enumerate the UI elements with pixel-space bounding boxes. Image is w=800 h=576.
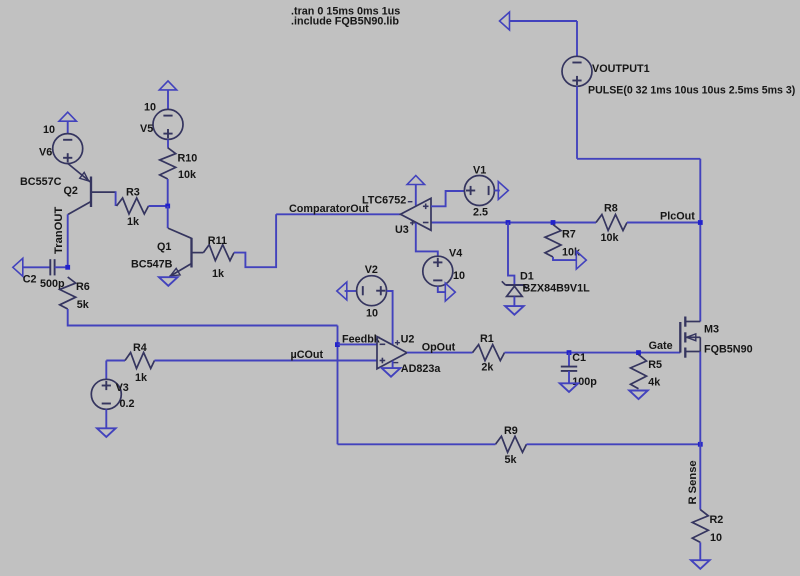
label V1 — [473, 165, 486, 177]
svg-text:2k: 2k — [481, 362, 494, 374]
wire R1 to gate row — [505, 352, 681, 354]
flag at V2 — [337, 282, 347, 300]
label C2 — [23, 274, 37, 286]
svg-text:2.5: 2.5 — [473, 207, 488, 219]
svg-text:U2: U2 — [401, 334, 415, 346]
resistor R8 — [596, 215, 627, 231]
wire M3 source to R2 — [699, 352, 701, 510]
voltage source V2 — [357, 276, 387, 306]
ground bottom right — [691, 560, 710, 569]
svg-text:R3: R3 — [126, 187, 140, 199]
wire R11 to ComparatorOut riser — [234, 214, 276, 267]
wire R4 to V3 — [105, 361, 107, 380]
label R7 — [562, 229, 576, 241]
resistor R4 — [125, 353, 155, 369]
wire V2 to U2 supply — [387, 291, 393, 345]
svg-text:V4: V4 — [449, 248, 462, 260]
node junction PlcOut — [698, 220, 703, 225]
svg-text:10: 10 — [453, 270, 465, 282]
label V6 — [39, 147, 52, 159]
svg-text:Gate: Gate — [649, 340, 673, 352]
svg-text:1k: 1k — [135, 372, 148, 384]
label U3 — [395, 224, 409, 236]
svg-text:10: 10 — [144, 102, 156, 114]
wire U2 bottom supply — [392, 361, 394, 368]
wire R10 to node — [167, 179, 169, 206]
wire Q2 base to R3 — [115, 191, 117, 206]
voltage source V4 — [423, 256, 453, 286]
svg-text:V1: V1 — [473, 165, 486, 177]
voltage source V6 — [53, 134, 83, 164]
svg-text:LTC6752: LTC6752 — [362, 195, 406, 207]
wire R9 right — [527, 443, 701, 445]
svg-text:OpOut: OpOut — [422, 342, 456, 354]
svg-text:10k: 10k — [601, 232, 620, 244]
wire R7 to flag — [553, 257, 577, 260]
value 0.2 of V3 — [120, 398, 135, 410]
wire VOUTPUT1 to right rail — [577, 86, 700, 159]
label FQB5N90 — [704, 344, 753, 356]
voltage source VOUTPUT1 — [562, 56, 592, 86]
comparator U3 LTC6752 — [401, 198, 432, 230]
svg-text:10: 10 — [366, 308, 378, 320]
svg-text:R5: R5 — [648, 359, 662, 371]
label R2 — [710, 514, 724, 526]
flag at V1 — [498, 182, 508, 200]
resistor R6 — [60, 277, 76, 309]
spice directive .tran — [291, 6, 400, 18]
resistor R2 — [692, 510, 708, 543]
flag above U3 — [407, 176, 424, 206]
flag net top-left — [500, 12, 510, 30]
value 2k of R1 — [481, 362, 494, 374]
value 10 of R2 — [710, 532, 722, 544]
svg-text:R4: R4 — [133, 342, 147, 354]
svg-text:TranOUT: TranOUT — [53, 207, 65, 254]
wire V3 to ground — [105, 409, 107, 428]
flag at R7 — [576, 251, 586, 269]
svg-text:1k: 1k — [127, 216, 140, 228]
transistor Q2 BC557C — [68, 163, 116, 214]
svg-text:µCOut: µCOut — [291, 349, 324, 361]
svg-text:V2: V2 — [365, 264, 378, 276]
wire ComparatorOut — [276, 213, 400, 215]
ground below U2 — [382, 368, 401, 377]
svg-text:4k: 4k — [648, 377, 661, 389]
node junction C1 — [567, 350, 572, 355]
wire top flag to VOUTPUT1 top — [510, 21, 578, 56]
svg-text:R7: R7 — [562, 229, 576, 241]
svg-text:10: 10 — [43, 124, 55, 136]
node junction RSense — [698, 442, 703, 447]
wire right rail upper — [699, 159, 701, 322]
value 500p of C2 — [40, 278, 65, 290]
flag at V4 — [445, 283, 455, 301]
ground below R5 — [629, 391, 648, 400]
svg-text:10: 10 — [710, 532, 722, 544]
label net uCOut — [291, 349, 324, 361]
wire flag to C2 — [23, 266, 51, 268]
resistor R5 — [631, 355, 647, 389]
label R11 — [208, 235, 227, 247]
label net OpOut — [422, 342, 456, 354]
svg-text:10k: 10k — [178, 169, 197, 181]
label 10 of V5 — [144, 102, 156, 114]
wire flag to V2 — [345, 290, 357, 292]
wire C2 to node — [55, 266, 68, 268]
svg-text:0.2: 0.2 — [120, 398, 135, 410]
svg-text:BC557C: BC557C — [20, 176, 62, 188]
svg-text:C2: C2 — [23, 274, 37, 286]
svg-text:BC547B: BC547B — [131, 259, 173, 271]
svg-text:C1: C1 — [572, 352, 586, 364]
label LTC6752 — [362, 195, 406, 207]
resistor R1 — [473, 345, 505, 361]
label net RSense — [687, 460, 699, 504]
value 4k of R5 — [648, 377, 661, 389]
value 10 of V4 — [453, 270, 465, 282]
ground at Q1 emitter — [159, 277, 178, 286]
wire R9 left — [338, 443, 496, 445]
label net ComparatorOut — [289, 203, 369, 215]
node junction Feedbk — [335, 342, 340, 347]
svg-text:R11: R11 — [208, 235, 227, 247]
wire comparator minus row — [431, 222, 596, 224]
label 10 of V6 — [43, 124, 55, 136]
capacitor C1 — [561, 353, 577, 384]
spice directive .include — [291, 16, 399, 28]
label Q2 — [64, 185, 78, 197]
value 10k of R7 — [562, 247, 581, 259]
wire corner to R4 — [106, 360, 125, 362]
svg-text:BZX84B9V1L: BZX84B9V1L — [523, 283, 591, 295]
node junction R5 — [636, 350, 641, 355]
svg-text:V3: V3 — [116, 382, 129, 394]
svg-text:5k: 5k — [505, 454, 518, 466]
value 10 of V2 — [366, 308, 378, 320]
label D1 — [520, 271, 534, 283]
svg-text:V6: V6 — [39, 147, 52, 159]
svg-text:R1: R1 — [480, 333, 494, 345]
svg-text:Q1: Q1 — [157, 241, 171, 253]
svg-text:Feedbk: Feedbk — [342, 334, 381, 346]
label net PlcOut — [660, 211, 695, 223]
value 10k of R10 — [178, 169, 197, 181]
svg-text:ComparatorOut: ComparatorOut — [289, 203, 369, 215]
label BC557C — [20, 176, 62, 188]
node junction R3/R10/Q1 — [165, 204, 170, 209]
voltage source V1 — [464, 176, 494, 206]
wire Feedbk riser — [337, 326, 339, 445]
label R8 — [604, 203, 618, 215]
svg-text:R Sense: R Sense — [687, 460, 699, 504]
svg-text:R9: R9 — [504, 425, 518, 437]
value 1k of R4 — [135, 372, 148, 384]
transistor Q1 BC547B — [168, 228, 204, 276]
svg-text:R2: R2 — [710, 514, 724, 526]
svg-text:Q2: Q2 — [64, 185, 78, 197]
label VOUTPUT1 — [592, 63, 650, 75]
node junction D1 branch — [506, 220, 511, 225]
svg-text:R8: R8 — [604, 203, 618, 215]
value 1k of R11 — [212, 268, 225, 280]
svg-text:VOUTPUT1: VOUTPUT1 — [592, 63, 650, 75]
value 2.5 of V1 — [473, 207, 488, 219]
label R6 — [76, 281, 90, 293]
svg-text:M3: M3 — [704, 324, 719, 336]
resistor R3 — [117, 198, 149, 214]
svg-text:1k: 1k — [212, 268, 225, 280]
label C1 — [572, 352, 586, 364]
wire V5 to R10 — [167, 139, 169, 147]
label R10 — [178, 153, 198, 165]
node junction R7 branch — [551, 220, 556, 225]
label BC547B — [131, 259, 173, 271]
wire Q2 collector TranOUT — [67, 214, 69, 267]
flag above V5 — [159, 81, 176, 110]
wire U3 bottom supply to V4 — [416, 223, 438, 256]
value PULSE(0 32 1ms 10us 10us 2.5ms 5ms 3) — [588, 85, 795, 97]
svg-text:D1: D1 — [520, 271, 534, 283]
ground below D1 — [505, 306, 524, 315]
resistor R11 — [203, 245, 234, 261]
label R4 — [133, 342, 147, 354]
node junction TranOUT/C2/R6 — [65, 265, 70, 270]
wire R2 to ground — [699, 542, 701, 560]
label Q1 — [157, 241, 171, 253]
label net Feedbk — [342, 334, 381, 346]
label net Gate — [649, 340, 673, 352]
value 5k of R9 — [505, 454, 518, 466]
label U2 — [401, 334, 415, 346]
wire R6 down and across — [68, 309, 338, 326]
wire OpOut — [407, 352, 473, 354]
label R3 — [126, 187, 140, 199]
voltage source V3 — [91, 379, 121, 409]
resistor R9 — [496, 436, 527, 452]
capacitor C2 — [50, 259, 54, 275]
svg-text:AD823a: AD823a — [401, 363, 442, 375]
wire R3 to node — [149, 205, 168, 207]
wire node to Q1 collector — [167, 206, 169, 228]
value 10k of R8 — [601, 232, 620, 244]
value 5k of R6 — [77, 299, 90, 311]
svg-text:R6: R6 — [76, 281, 90, 293]
label V3 — [116, 382, 129, 394]
label net TranOUT — [53, 207, 65, 254]
value 100p of C1 — [572, 376, 597, 388]
svg-text:.include FQB5N90.lib: .include FQB5N90.lib — [291, 16, 399, 28]
wire V1 to flag — [494, 190, 499, 192]
label M3 — [704, 324, 719, 336]
wire Feedbk to U2 — [338, 343, 378, 345]
svg-text:FQB5N90: FQB5N90 — [704, 344, 753, 356]
value 1k of R3 — [127, 216, 140, 228]
wire R8 to PlcOut — [627, 222, 700, 224]
label AD823a — [401, 363, 442, 375]
flag net at C2 — [13, 258, 23, 276]
diode D1 BZX84B9V1L zener — [502, 281, 527, 306]
wire V4 to flag — [438, 286, 445, 292]
svg-text:5k: 5k — [77, 299, 90, 311]
svg-text:R10: R10 — [178, 153, 198, 165]
voltage source V5 — [153, 109, 183, 139]
label R9 — [504, 425, 518, 437]
wire U3 plus input to V1 — [431, 191, 464, 206]
ground below C1 — [560, 383, 579, 392]
ground below V3 — [97, 428, 116, 437]
transistor M3 FQB5N90 — [680, 317, 700, 358]
op-amp U2 AD823a — [377, 337, 407, 369]
label V5 — [140, 123, 153, 135]
svg-text:U3: U3 — [395, 224, 409, 236]
svg-text:V5: V5 — [140, 123, 153, 135]
resistor R10 — [160, 148, 176, 179]
svg-text:PlcOut: PlcOut — [660, 211, 695, 223]
label BZX84B9V1L — [523, 283, 591, 295]
resistor R7 — [545, 225, 561, 258]
svg-text:PULSE(0 32 1ms 10us 10us 2.5ms: PULSE(0 32 1ms 10us 10us 2.5ms 5ms 3) — [588, 85, 795, 97]
label V4 — [449, 248, 462, 260]
wire to D1 — [508, 223, 514, 285]
flag above V6 — [59, 112, 76, 134]
wire uCOut row — [155, 360, 378, 362]
label V2 — [365, 264, 378, 276]
label R5 — [648, 359, 662, 371]
label R1 — [480, 333, 494, 345]
